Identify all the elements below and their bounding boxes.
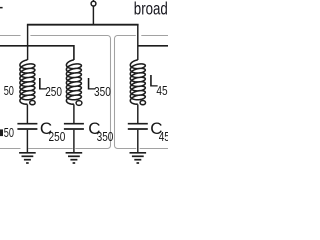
- box G1 (cut at left edge) top segment: [0, 35, 21, 37]
- svg-text:450: 450: [156, 83, 168, 98]
- svg-text:50: 50: [4, 125, 14, 140]
- terminal wire down: [92, 6, 94, 25]
- cut wire stub top-left: [0, 7, 3, 8]
- svg-text:250: 250: [49, 129, 66, 144]
- inductor L450: [130, 60, 145, 104]
- svg-text:50: 50: [4, 83, 14, 98]
- capacitor plates: [64, 123, 84, 125]
- top bus wire: [27, 24, 139, 26]
- svg-text:450: 450: [159, 129, 168, 144]
- wire cap to ground: [137, 130, 139, 153]
- terminal port stub: [92, 0, 94, 2]
- box G2 outline: [30, 36, 110, 149]
- coil exit loop: [30, 101, 35, 105]
- bus drop to branch D: [137, 25, 139, 60]
- box G3 top segments: [141, 35, 168, 37]
- inductor L350: [66, 60, 81, 104]
- lower-left bus wire: [0, 46, 74, 60]
- box G2 bottom segment: [28, 148, 72, 150]
- riser wire branch A: [27, 25, 29, 60]
- wire cap to ground: [26, 130, 28, 153]
- wire coil to cap: [137, 104, 139, 123]
- svg-text:350: 350: [94, 84, 111, 99]
- capacitor plates: [17, 123, 37, 125]
- capacitor plates: [128, 123, 148, 125]
- wire cap to ground: [73, 130, 75, 153]
- wire coil to cap: [26, 104, 28, 123]
- lower-right bus wire: [138, 45, 168, 47]
- ground: [130, 153, 147, 163]
- wire coil to cap: [73, 104, 75, 123]
- label C150 tail: cut glyph block: [0, 129, 3, 136]
- ground: [66, 153, 83, 163]
- box G3 bottom segment: [140, 148, 168, 150]
- svg-text:250: 250: [45, 84, 62, 99]
- svg-text:350: 350: [97, 129, 114, 144]
- coil exit loop: [140, 101, 145, 105]
- inductor L250: [20, 60, 35, 104]
- ground: [19, 153, 36, 163]
- box G1 bottom segment: [0, 148, 21, 150]
- svg-text:broad: broad: [134, 0, 168, 19]
- terminal circle: [91, 1, 96, 6]
- coil exit loop: [76, 101, 82, 106]
